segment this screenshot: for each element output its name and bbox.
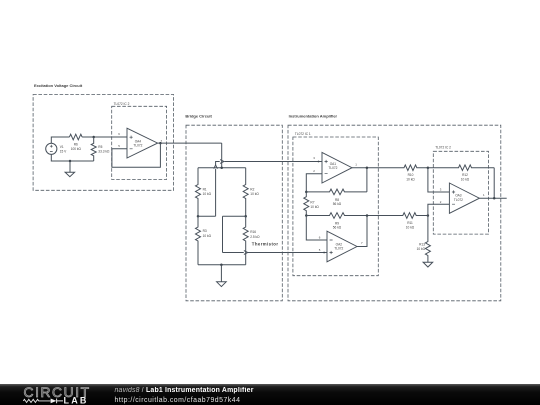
junction: pin5 wire dot bbox=[323, 252, 325, 254]
plus/minus OA4 bbox=[130, 136, 133, 149]
junction: ground node bbox=[69, 160, 72, 163]
svg-text:R3: R3 bbox=[203, 229, 207, 233]
wire hop: over bridge top rail bbox=[214, 165, 218, 169]
resistor R2 bbox=[243, 168, 248, 217]
svg-text:10 kΩ: 10 kΩ bbox=[417, 247, 426, 251]
wire: R6 to op-amp pin 6 bbox=[82, 136, 127, 138]
svg-text:TL072 IC 2: TL072 IC 2 bbox=[114, 102, 130, 106]
plus/minus OA3 bbox=[452, 190, 455, 204]
wire: OA4 output bbox=[158, 142, 222, 144]
wire: OA1 pin 2 feedback left bbox=[306, 174, 322, 192]
wire: OA3 output bbox=[479, 197, 506, 199]
resistor R3 bbox=[196, 216, 201, 264]
svg-text:TL072: TL072 bbox=[133, 143, 142, 147]
op-amp OA4 bbox=[127, 128, 158, 158]
logo resistor squiggle and diode bbox=[23, 399, 50, 402]
wire: bridge right mid to OA2 pin 5 bbox=[223, 216, 328, 252]
svg-text:LAB: LAB bbox=[64, 395, 89, 405]
svg-text:10 kΩ: 10 kΩ bbox=[203, 192, 212, 196]
svg-text:V1: V1 bbox=[60, 145, 64, 149]
junction: bridge left mid node bbox=[197, 215, 200, 218]
junction: bridge bottom node bbox=[220, 264, 223, 267]
svg-text:http://circuitlab.com/cfaab79d: http://circuitlab.com/cfaab79d57k44 bbox=[115, 397, 241, 404]
dashed box: bridge circuit bbox=[186, 125, 282, 301]
plus/minus OA2 bbox=[330, 240, 333, 254]
wire: down to OA3 pin 3 bbox=[428, 168, 450, 192]
svg-text:TL072: TL072 bbox=[454, 198, 463, 202]
wire: bridge top rail bbox=[198, 167, 246, 169]
wire: bridge bottom rail bbox=[198, 264, 246, 266]
svg-text:TL072: TL072 bbox=[328, 166, 337, 170]
resistor R5 bbox=[91, 137, 96, 161]
wire: OA1 output bbox=[352, 167, 403, 169]
dashed box: excitation voltage circuit bbox=[33, 95, 174, 191]
svg-text:33.3 kΩ: 33.3 kΩ bbox=[98, 150, 110, 154]
resistor R6 bbox=[69, 134, 82, 140]
junction: OA4 output node bbox=[159, 142, 162, 145]
svg-text:10 kΩ: 10 kΩ bbox=[310, 205, 319, 209]
wire: up to OA3 pin 2 bbox=[428, 204, 450, 215]
svg-text:R2: R2 bbox=[250, 187, 254, 191]
wire: V1 top to R6 bbox=[51, 137, 69, 143]
dashed box: TL072 IC 2 (excitation) bbox=[112, 106, 167, 179]
wire: bottom rail V1 to R5 bbox=[51, 154, 93, 161]
svg-text:56 kΩ: 56 kΩ bbox=[333, 226, 342, 230]
svg-text:10 kΩ: 10 kΩ bbox=[406, 225, 415, 229]
ground (bridge) bbox=[217, 265, 227, 287]
svg-text:100 kΩ: 100 kΩ bbox=[71, 147, 82, 151]
svg-text:R12: R12 bbox=[462, 173, 468, 177]
junction: OA1 output node bbox=[366, 166, 369, 169]
svg-text:R6: R6 bbox=[74, 142, 78, 146]
wire: bridge left mid to OA1 pin 3 bbox=[198, 162, 322, 217]
svg-text:Thermistor: Thermistor bbox=[252, 242, 279, 247]
wire: OA2 output up to R9 row bbox=[357, 216, 367, 247]
svg-text:10 kΩ: 10 kΩ bbox=[250, 192, 259, 196]
svg-text:2.5 kΩ: 2.5 kΩ bbox=[250, 235, 260, 239]
resistor R7 bbox=[304, 192, 309, 216]
wire: pin6 drop bbox=[306, 216, 327, 241]
op-amp OA2 bbox=[327, 231, 357, 262]
svg-text:TL072 IC 1: TL072 IC 1 bbox=[295, 132, 311, 136]
junction: R11/R13/pin2 node bbox=[427, 214, 430, 217]
svg-text:R16: R16 bbox=[250, 230, 256, 234]
svg-text:10 kΩ: 10 kΩ bbox=[461, 177, 470, 181]
svg-text:R5: R5 bbox=[98, 145, 102, 149]
resistor R8 bbox=[306, 189, 367, 195]
svg-text:15 V: 15 V bbox=[60, 150, 67, 154]
wire hop: over supply drop bbox=[220, 160, 224, 164]
op-amp OA3 bbox=[449, 183, 479, 213]
op-amp OA1 bbox=[322, 152, 352, 183]
svg-text:R13: R13 bbox=[419, 243, 425, 247]
svg-text:TL072 IC 2: TL072 IC 2 bbox=[435, 146, 451, 150]
junction: pin3 wire dot bbox=[318, 161, 320, 163]
junction: bridge top node bbox=[220, 166, 223, 169]
dashed box: instrumentation amplifier bbox=[288, 125, 501, 301]
wire: OA4 feedback loop bbox=[112, 143, 160, 167]
svg-text:Bridge Circuit: Bridge Circuit bbox=[185, 113, 212, 118]
svg-text:TL072: TL072 bbox=[334, 247, 343, 251]
plus/minus OA1 bbox=[325, 160, 328, 174]
junction: bridge right mid node bbox=[244, 215, 247, 218]
voltage source V1 bbox=[46, 143, 57, 154]
dashed box: TL072 IC 2 (output) bbox=[433, 151, 488, 234]
junction: R7/R8 node bbox=[305, 191, 308, 194]
resistor R10 bbox=[403, 165, 428, 171]
svg-text:Excitation Voltage Circuit: Excitation Voltage Circuit bbox=[34, 83, 83, 88]
resistor R1 bbox=[196, 168, 201, 217]
svg-text:R7: R7 bbox=[310, 200, 314, 204]
wire hop: over thermistor leg bbox=[244, 251, 248, 255]
wire: R12 right leg down to output bbox=[493, 168, 495, 199]
dashed box: TL072 IC 1 bbox=[293, 137, 378, 276]
svg-text:R1: R1 bbox=[203, 187, 207, 191]
resistor R11 bbox=[403, 213, 428, 219]
junction: R7/R9/pin6 node bbox=[305, 214, 308, 217]
svg-text:10 kΩ: 10 kΩ bbox=[406, 177, 415, 181]
resistor R9 bbox=[306, 213, 402, 219]
resistor R12 bbox=[428, 165, 494, 171]
svg-text:56 kΩ: 56 kΩ bbox=[333, 202, 342, 206]
wire: R8 right to OA1 output bbox=[366, 168, 368, 192]
svg-text:R11: R11 bbox=[407, 221, 413, 225]
resistor R16 thermistor bbox=[243, 216, 248, 264]
resistor R13 bbox=[425, 216, 430, 263]
svg-text:10 kΩ: 10 kΩ bbox=[203, 234, 212, 238]
junction: R10/R12/pin3 node bbox=[427, 166, 430, 169]
svg-text:navids8 / Lab1 Instrumentation: navids8 / Lab1 Instrumentation Amplifier bbox=[115, 387, 254, 394]
junction: R6/R5 node bbox=[92, 136, 95, 139]
junction: OA2 output node bbox=[366, 214, 369, 217]
junction: output node bbox=[493, 197, 496, 200]
svg-text:Instrumentation Amplifier: Instrumentation Amplifier bbox=[289, 113, 338, 118]
ground (excitation) bbox=[65, 161, 75, 177]
svg-text:R10: R10 bbox=[408, 173, 414, 177]
ground (R13) bbox=[423, 262, 433, 267]
wire: supply drop into bridge bbox=[221, 143, 223, 168]
